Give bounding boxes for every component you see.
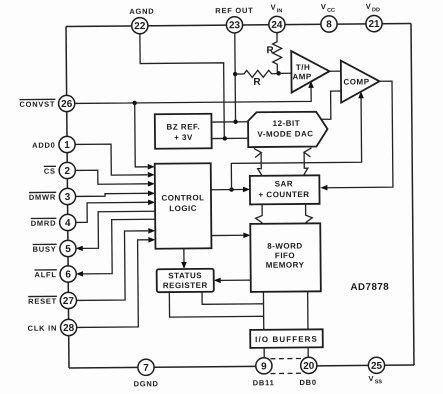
svg-text:25: 25 xyxy=(371,361,383,372)
wire BZ REF to DAC upper xyxy=(212,121,248,123)
svg-text:CONTROL: CONTROL xyxy=(161,193,204,202)
wire BUSY out xyxy=(82,211,155,248)
svg-text:4: 4 xyxy=(65,218,71,229)
svg-text:SAR: SAR xyxy=(275,179,293,188)
svg-text:AMP: AMP xyxy=(292,72,312,81)
block BZ REF +3V xyxy=(155,114,212,149)
pin 24 VIN xyxy=(269,16,285,32)
svg-text:7: 7 xyxy=(143,363,149,374)
pin 25 VSS xyxy=(368,357,384,373)
wire RESET xyxy=(76,231,149,301)
pin 9 DB11 xyxy=(256,358,272,374)
svg-text:DD: DD xyxy=(372,7,380,13)
svg-text:DMWR: DMWR xyxy=(29,193,56,202)
chip boundary bottom border (right of DB0) xyxy=(302,364,413,367)
arrowhead into T/H AMP xyxy=(308,81,314,88)
svg-text:V: V xyxy=(321,2,327,11)
svg-text:6: 6 xyxy=(65,269,71,280)
block CONTROL LOGIC xyxy=(155,163,212,248)
bus DAC-SAR right barb xyxy=(304,148,311,157)
pin 8 VCC xyxy=(321,16,337,32)
wire DAC output to COMP input xyxy=(321,91,341,119)
wire I/O buffers to DB11 xyxy=(263,348,265,358)
pin 7 DGND xyxy=(138,359,154,375)
wire T/H AMP to COMP xyxy=(329,70,340,72)
svg-text:DGND: DGND xyxy=(134,379,159,388)
pin 22 AGND xyxy=(132,17,148,33)
svg-text:2: 2 xyxy=(64,166,70,177)
svg-text:CLK IN: CLK IN xyxy=(28,324,58,333)
wire FIFO to I/O buffers left xyxy=(262,292,264,330)
pin 28 CLK IN xyxy=(60,319,76,335)
svg-text:FIFO: FIFO xyxy=(275,251,295,260)
svg-text:ADD0: ADD0 xyxy=(32,141,55,150)
bus DAC-SAR left side xyxy=(258,153,262,176)
node junction CONVST branch xyxy=(132,101,136,105)
node junction AGND/BZ line xyxy=(223,136,227,140)
wire control logic to FIFO xyxy=(211,234,243,236)
node junction control/COMP branch xyxy=(229,187,233,191)
resistor R horizontal xyxy=(235,70,279,77)
block 12-BIT V-MODE DAC xyxy=(248,112,328,147)
wire control logic to SAR xyxy=(211,188,243,190)
svg-text:23: 23 xyxy=(229,20,241,31)
svg-text:V-MODE DAC: V-MODE DAC xyxy=(257,129,313,138)
pin 5 BUSY xyxy=(60,240,76,256)
pin 2 CS xyxy=(59,162,75,178)
svg-text:ALFL: ALFL xyxy=(34,270,56,279)
svg-text:1: 1 xyxy=(64,140,70,151)
svg-text:IN: IN xyxy=(277,8,283,14)
node junction VIN/R xyxy=(276,71,280,75)
wire CONVST main to T/H control xyxy=(74,85,311,103)
svg-text:R: R xyxy=(253,77,261,88)
wire ALFL out xyxy=(82,219,155,274)
svg-text:V: V xyxy=(271,3,277,12)
node junction REFOUT/R xyxy=(233,72,237,76)
pin 1 ADD0 xyxy=(59,136,75,152)
svg-text:26: 26 xyxy=(61,99,73,110)
svg-text:5: 5 xyxy=(65,244,71,255)
svg-text:T/H: T/H xyxy=(296,63,310,72)
svg-text:CS: CS xyxy=(44,167,56,176)
chip boundary right border xyxy=(411,24,414,365)
pin 23 REF OUT xyxy=(226,17,242,33)
pin 27 RESET xyxy=(60,292,76,308)
bus SAR-FIFO left side xyxy=(255,205,262,223)
svg-text:8-WORD: 8-WORD xyxy=(267,241,303,250)
svg-text:I/O BUFFERS: I/O BUFFERS xyxy=(255,335,318,345)
wire AGND to DAC/BZ net xyxy=(140,33,224,140)
svg-text:BZ REF.: BZ REF. xyxy=(166,122,200,131)
pin 26 CONVST xyxy=(59,95,75,111)
wire R node to T/H AMP input xyxy=(279,72,292,74)
wire control logic to COMP control xyxy=(231,98,362,190)
svg-text:STATUS: STATUS xyxy=(168,271,202,280)
node junction REFOUT/BZ line xyxy=(233,120,237,124)
wire ADD0 xyxy=(75,144,148,176)
svg-text:REF OUT: REF OUT xyxy=(215,6,253,15)
pin 3 DMWR xyxy=(59,188,75,204)
svg-text:MEMORY: MEMORY xyxy=(266,260,305,269)
wire DMWR xyxy=(75,193,148,196)
op-amp T/H AMP xyxy=(291,51,329,93)
wire dashed DB range top xyxy=(270,357,301,359)
svg-text:REGISTER: REGISTER xyxy=(163,281,208,290)
svg-text:+ COUNTER: + COUNTER xyxy=(258,190,309,199)
wire COMP output to SAR xyxy=(327,81,393,188)
wire control logic to status register xyxy=(183,248,185,262)
svg-text:BUSY: BUSY xyxy=(33,245,57,254)
svg-text:R: R xyxy=(266,45,274,56)
wire status register to bus B xyxy=(169,291,263,317)
pin 6 ALFL xyxy=(60,266,76,282)
chip boundary top border xyxy=(66,24,411,27)
svg-text:+ 3V: + 3V xyxy=(174,133,193,142)
svg-text:24: 24 xyxy=(271,20,283,31)
svg-text:RESET: RESET xyxy=(28,297,57,306)
svg-text:8: 8 xyxy=(326,19,332,30)
block SAR + COUNTER xyxy=(250,175,320,204)
block STATUS REGISTER xyxy=(157,269,214,292)
wire I/O buffers to DB0 xyxy=(307,347,309,357)
svg-text:CONVST: CONVST xyxy=(19,100,55,109)
wire CLK IN xyxy=(76,240,149,328)
svg-text:SS: SS xyxy=(375,379,383,385)
op-amp COMP xyxy=(341,60,380,102)
svg-text:LOGIC: LOGIC xyxy=(169,204,197,213)
svg-text:DB0: DB0 xyxy=(299,378,316,387)
bus DAC-SAR right side xyxy=(304,152,308,175)
chip boundary bottom border (left of DB11) xyxy=(69,366,267,368)
svg-text:V: V xyxy=(368,374,374,383)
svg-text:COMP: COMP xyxy=(343,77,369,86)
wire FIFO to I/O buffers right xyxy=(307,291,309,329)
wire FIFO to status register xyxy=(221,279,251,281)
svg-text:DB11: DB11 xyxy=(253,378,275,387)
svg-text:3: 3 xyxy=(65,192,71,203)
svg-text:22: 22 xyxy=(134,21,146,32)
svg-text:20: 20 xyxy=(303,361,315,372)
svg-text:27: 27 xyxy=(63,296,75,307)
wire REF OUT vertical xyxy=(234,33,237,122)
wire CS xyxy=(75,170,148,185)
pin 20 DB0 xyxy=(301,357,317,373)
wire DMRD xyxy=(75,202,148,222)
block I/O BUFFERS xyxy=(250,329,323,348)
resistor R vertical under VIN xyxy=(272,32,281,73)
svg-text:12-BIT: 12-BIT xyxy=(273,119,301,128)
svg-text:CC: CC xyxy=(327,8,335,14)
svg-text:AGND: AGND xyxy=(129,7,154,16)
pin 21 VDD xyxy=(366,15,382,31)
svg-text:9: 9 xyxy=(261,361,267,372)
chip boundary left pin chain xyxy=(66,27,69,368)
block 8-WORD FIFO MEMORY xyxy=(250,223,321,292)
wire status register to bus A xyxy=(202,291,264,304)
svg-text:21: 21 xyxy=(368,19,380,30)
svg-text:V: V xyxy=(366,2,372,11)
svg-text:28: 28 xyxy=(63,323,75,334)
wire CONVST branch to control logic xyxy=(135,103,148,167)
pin 4 DMRD xyxy=(60,214,76,230)
wire BZ REF to DAC lower xyxy=(212,137,248,139)
svg-text:DMRD: DMRD xyxy=(31,219,57,228)
svg-text:AD7878: AD7878 xyxy=(350,282,389,293)
bus SAR-FIFO right side xyxy=(305,204,312,222)
bus DAC-SAR left barb xyxy=(254,148,261,157)
wire dashed DB range bottom xyxy=(271,372,302,374)
